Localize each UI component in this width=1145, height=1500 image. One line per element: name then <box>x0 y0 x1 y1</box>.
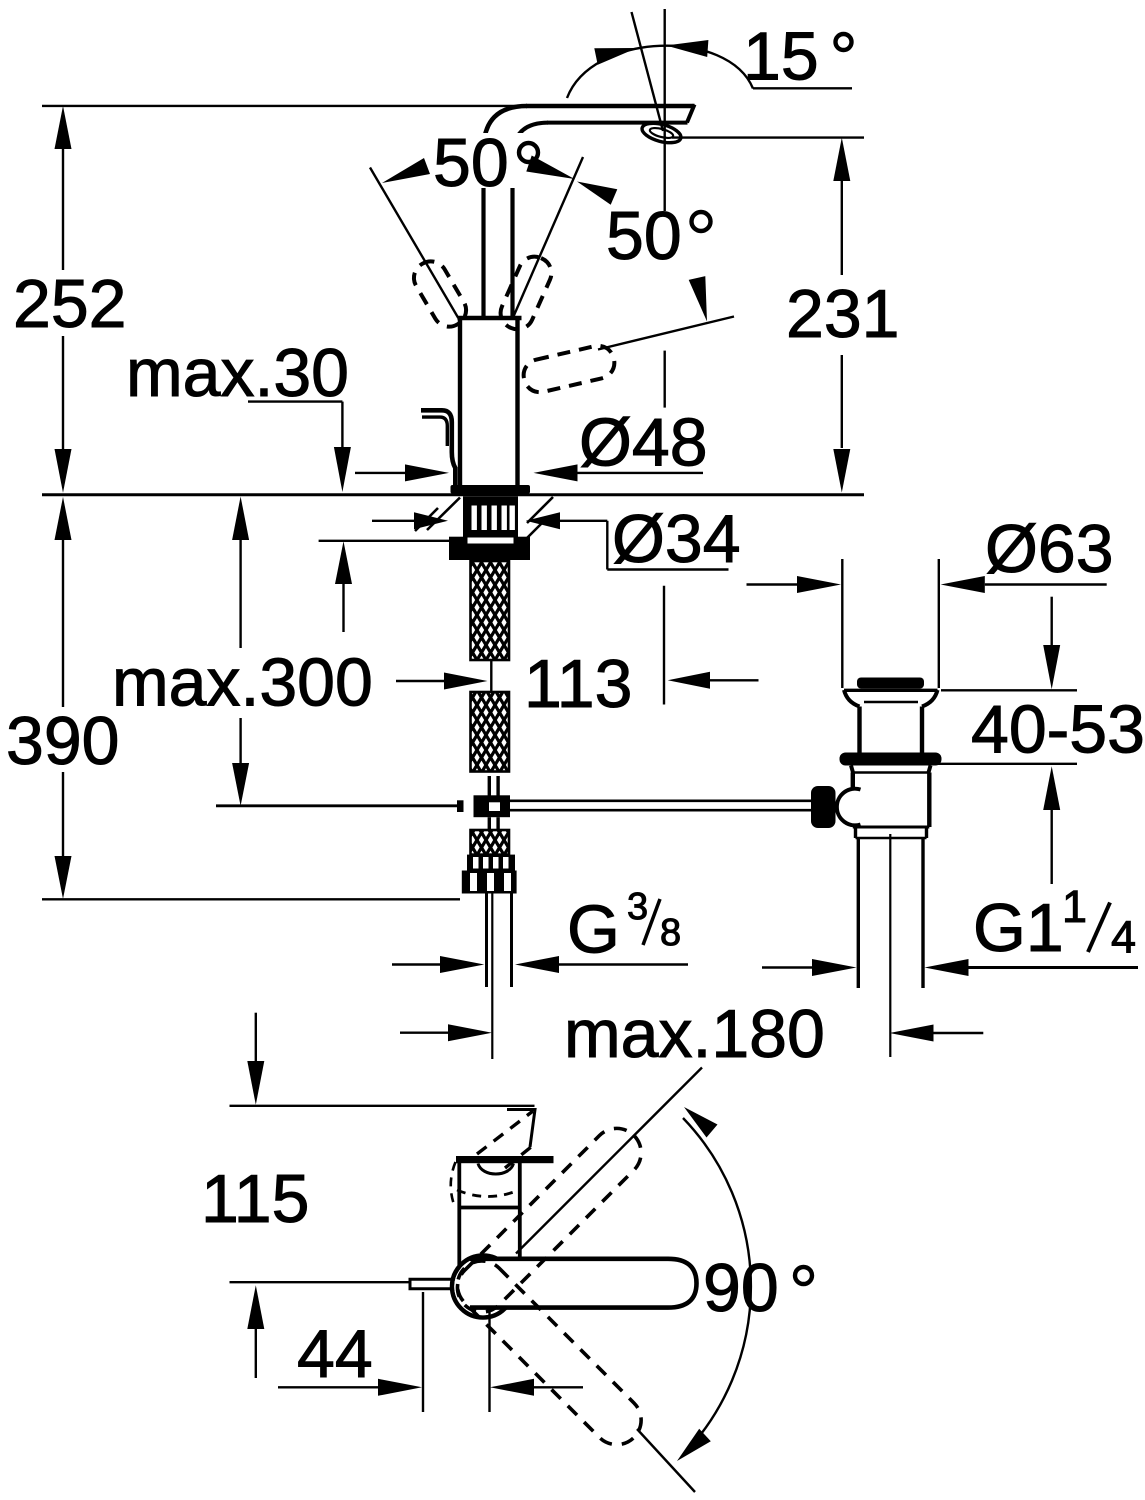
degree symbol of 50deg-1 <box>519 143 538 162</box>
supply pipe left wall <box>485 894 488 988</box>
G3/8 left arrowhead <box>440 956 484 973</box>
drain body right side <box>927 773 931 828</box>
drain nut right side <box>925 827 928 838</box>
svg-text:390: 390 <box>6 703 119 779</box>
vertical centerline lower segment <box>664 351 666 408</box>
svg-text:231: 231 <box>786 276 899 352</box>
shank thread slots <box>472 506 477 531</box>
body mid line side view <box>458 1206 522 1210</box>
hose ferrule <box>467 855 515 871</box>
dashed lever horizontal position <box>520 343 617 396</box>
temperature limiter tab <box>410 1279 454 1288</box>
50deg-1 right arrowhead <box>526 156 574 180</box>
max.300 dim line upper <box>239 540 241 648</box>
spout tip slant cut <box>687 105 695 123</box>
svg-text:G1: G1 <box>973 890 1064 966</box>
faucet body left edge <box>458 318 462 486</box>
dashed handle rotated down 45deg <box>447 1251 651 1455</box>
max.30 leader drop <box>341 402 343 447</box>
drain body bottom step <box>853 826 930 829</box>
90deg dimension arc <box>683 1118 751 1455</box>
svg-text:40-53: 40-53 <box>971 692 1145 768</box>
spout bottom edge <box>547 121 688 125</box>
svg-text:90: 90 <box>703 1250 779 1326</box>
G1-1/4 left arrowhead <box>812 959 857 976</box>
tee stem lower <box>488 817 491 830</box>
44 right dim line <box>534 1386 583 1388</box>
50deg-1 right boundary line <box>513 157 583 318</box>
pop-up lever ball joint <box>837 789 861 826</box>
max.180 left dim line <box>400 1031 448 1033</box>
aerator outlet <box>640 120 683 147</box>
extension line at spout top level <box>42 105 545 107</box>
max.300 bottom ref / rod left line <box>216 804 457 807</box>
faucet neck right line upper <box>510 158 514 317</box>
drain flange left side <box>844 690 860 707</box>
d34 right dim line <box>560 520 607 522</box>
d63 left arrowhead <box>797 576 841 593</box>
supply pipe right wall <box>510 894 513 988</box>
d34 leader vertical <box>606 521 608 570</box>
max.30 up arrow stem <box>342 584 344 632</box>
drain plug cap <box>857 678 924 689</box>
faucet neck left line upper <box>481 150 485 317</box>
d63 right extension line <box>938 559 940 688</box>
252 dim line lower <box>62 336 64 449</box>
mounting shank threaded block <box>463 496 518 538</box>
svg-text:max.30: max.30 <box>126 335 349 411</box>
d48 left arrowhead <box>405 464 449 481</box>
body top bar <box>456 1156 554 1163</box>
tilted spout axis 15deg <box>632 12 664 131</box>
rod tee block <box>474 795 511 817</box>
115 lower arrow stem <box>255 1329 257 1378</box>
15deg label underline <box>753 87 852 89</box>
washer bottom reference line <box>319 540 450 542</box>
drain nut left side <box>854 827 857 838</box>
drain body top line <box>853 771 929 773</box>
15deg left arrowhead <box>594 48 637 65</box>
dashed lever left position <box>408 255 472 332</box>
svg-text:50: 50 <box>606 198 682 274</box>
d48 right dim line / label underline <box>578 472 704 474</box>
spout left outer curve <box>484 106 528 150</box>
90deg bottom arrowhead <box>677 1429 711 1461</box>
dashed lever right position <box>495 252 556 335</box>
115 down arrowhead <box>247 1061 264 1105</box>
drain lower flange right <box>929 766 931 773</box>
390 bottom arrowhead <box>55 856 72 899</box>
d48 right arrowhead <box>534 464 578 481</box>
40-53 upper arrow stem <box>1050 597 1052 645</box>
pop-up lever knob <box>811 786 836 828</box>
pop-up rod bottom line <box>510 809 812 812</box>
dashed spout upper line <box>477 1111 533 1154</box>
handle side view <box>470 1259 697 1308</box>
231 top arrowhead <box>833 138 850 181</box>
degree symbol of 50deg-2 <box>692 212 711 231</box>
handle-up centerline <box>516 1068 702 1254</box>
40-53 top reference line <box>941 689 1077 691</box>
counter hatch tick right1 <box>527 497 553 523</box>
50deg-1 left arrowhead <box>382 158 430 183</box>
231 top reference line <box>672 136 864 138</box>
drain lower flange left <box>851 766 853 773</box>
body right edge side view <box>518 1163 522 1299</box>
G1-1/4 right arrowhead <box>925 959 969 976</box>
40-53 lower arrow stem <box>1050 810 1052 884</box>
44 left dim line <box>278 1386 379 1388</box>
handle-down centerline <box>637 1429 695 1492</box>
44 right arrowhead <box>490 1379 534 1396</box>
braided hose segment 1 <box>471 561 510 660</box>
252 dim line upper <box>62 149 64 270</box>
svg-text:max.300: max.300 <box>112 645 373 721</box>
d63 right dim line / underline <box>985 583 1107 585</box>
svg-text:max.180: max.180 <box>564 996 825 1072</box>
svg-text:3: 3 <box>627 886 648 928</box>
drain flange top edge <box>844 689 938 692</box>
40-53 bottom reference line <box>935 763 1077 765</box>
base plate <box>451 485 531 494</box>
svg-text:Ø63: Ø63 <box>985 511 1114 587</box>
svg-text:44: 44 <box>297 1316 373 1392</box>
252 bottom arrowhead <box>55 449 72 493</box>
max.180 right arrowhead <box>890 1025 934 1042</box>
231 dim line upper <box>841 181 843 275</box>
svg-text:252: 252 <box>13 266 126 342</box>
hose nut <box>462 871 517 894</box>
svg-text:8: 8 <box>660 912 681 954</box>
G1-1/4 fraction slash <box>1088 903 1110 953</box>
390 dim line lower <box>62 772 64 856</box>
50deg-2 lower boundary line <box>598 317 734 350</box>
svg-text:Ø48: Ø48 <box>579 405 708 481</box>
50deg-2 upper arrowhead <box>577 182 617 205</box>
113 left dim line <box>396 680 444 682</box>
drain neck right side <box>920 707 924 754</box>
handle lever inner line <box>422 417 447 446</box>
G3/8 left dim line <box>392 963 441 965</box>
svg-text:Ø34: Ø34 <box>612 501 741 577</box>
15deg right arrowhead <box>666 40 708 57</box>
vertical centerline upper <box>664 9 666 211</box>
rod tee left collar <box>457 800 464 812</box>
G3/8 right arrowhead <box>515 956 559 973</box>
svg-text:15: 15 <box>743 19 819 95</box>
dashed spout lower line <box>505 1147 531 1168</box>
max.300 dim line lower <box>239 718 241 763</box>
max.300 bottom arrowhead <box>232 763 249 806</box>
dashed hidden joint arc <box>457 1190 519 1197</box>
dashed body corner arc <box>451 1162 456 1206</box>
max.180 left arrowhead <box>448 1024 492 1041</box>
115 upper arrow stem <box>255 1013 257 1062</box>
drain gasket <box>840 753 942 766</box>
drain body left side <box>851 773 855 828</box>
231 dim line lower <box>841 355 843 448</box>
max.180 right dim line <box>934 1032 984 1034</box>
braided hose segment 3 <box>471 830 510 855</box>
G3/8 fraction slash <box>643 899 660 945</box>
drain tailpipe left wall <box>857 838 860 988</box>
115 top reference line <box>230 1105 535 1107</box>
max.300 top arrowhead <box>232 497 249 541</box>
body left edge side view <box>457 1163 461 1299</box>
113 right extension line <box>663 586 665 705</box>
counter hatch tick right2 <box>525 518 547 540</box>
113 left arrowhead <box>444 673 488 690</box>
counter hatch tick left1 <box>427 498 460 531</box>
svg-text:50: 50 <box>433 125 509 201</box>
231 bottom arrowhead <box>833 449 850 493</box>
50deg-1 left boundary line <box>370 168 458 319</box>
handle lever profile <box>421 410 455 486</box>
drain nut bottom line <box>856 837 927 839</box>
drain flange right side <box>922 690 938 707</box>
d34 label underline <box>607 568 728 570</box>
d34 left dim line <box>372 520 415 522</box>
faucet spout top edge <box>526 104 695 109</box>
252 top arrowhead <box>55 106 72 149</box>
44 left extension line <box>422 1292 424 1412</box>
390 top arrowhead <box>55 497 72 540</box>
d34 left arrowhead <box>414 512 448 529</box>
spout inner curve <box>513 123 549 158</box>
max.30 up arrowhead <box>335 541 352 584</box>
d63 left extension line <box>841 559 843 688</box>
40-53 up arrowhead <box>1043 766 1060 810</box>
d34 right arrowhead <box>526 512 560 529</box>
svg-text:113: 113 <box>524 646 632 722</box>
pop-up rod top line <box>510 799 812 802</box>
drain flange inner line <box>864 701 918 703</box>
svg-text:4: 4 <box>1111 912 1136 963</box>
G3/8 right dim line <box>559 963 688 965</box>
d63 right arrowhead <box>941 576 985 593</box>
max.30 down arrowhead <box>334 447 351 492</box>
90deg top arrowhead <box>684 1107 718 1138</box>
50deg-2 lower arrowhead <box>689 276 707 321</box>
dashed handle rotated up 45deg <box>447 1118 651 1322</box>
degree symbol of 90deg <box>795 1267 812 1284</box>
svg-text:G: G <box>567 892 620 968</box>
115 up arrowhead <box>247 1285 264 1329</box>
horseshoe washer <box>449 537 530 560</box>
d63 left dim line <box>747 583 798 585</box>
44 right extension line <box>488 1308 490 1412</box>
supply pipe centerline <box>491 894 493 1060</box>
390 dim line upper <box>62 540 64 707</box>
115 bottom reference line <box>230 1281 410 1283</box>
cartridge dome arc <box>478 1164 514 1175</box>
390 bottom reference line <box>42 898 460 900</box>
44 left arrowhead <box>378 1379 422 1396</box>
d48 left dim line <box>355 472 406 474</box>
drain tailpipe right wall <box>921 838 924 988</box>
40-53 down arrowhead <box>1043 645 1060 689</box>
svg-text:115: 115 <box>201 1161 309 1237</box>
drain neck left side <box>857 707 861 754</box>
faucet body top edge <box>458 316 522 320</box>
max.30 leader line <box>248 400 342 402</box>
15deg dimension arc <box>567 46 753 98</box>
braided hose segment 2 <box>471 692 510 772</box>
faucet body right edge <box>515 318 519 486</box>
svg-text:1: 1 <box>1062 881 1087 932</box>
tee stem upper <box>488 776 491 796</box>
handle pivot boss circle <box>452 1256 514 1318</box>
113 right arrowhead <box>668 672 710 689</box>
countertop line <box>42 493 864 496</box>
degree symbol of 15deg <box>836 34 852 50</box>
113 right dim line <box>710 679 759 681</box>
G1-1/4 left dim line <box>762 966 813 968</box>
spout tip cap <box>507 1110 535 1148</box>
G1-1/4 right dim line <box>969 966 1139 969</box>
hose break centerline <box>490 660 492 692</box>
counter hatch tick left2 <box>415 508 438 531</box>
drain centerline <box>889 834 891 1057</box>
